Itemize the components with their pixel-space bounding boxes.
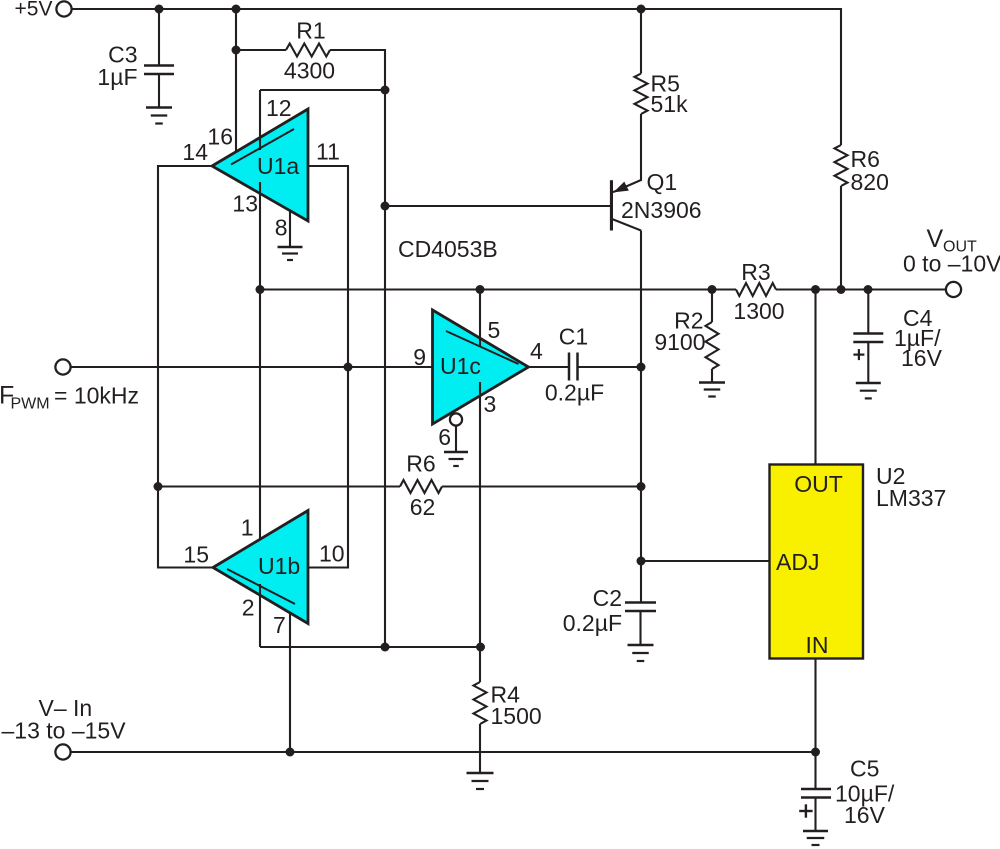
pin label 6 bbox=[438, 424, 451, 450]
wire pin 5 bbox=[479, 290, 481, 348]
svg-text:+5V: +5V bbox=[15, 0, 53, 21]
pin label 10 bbox=[319, 541, 345, 567]
transistor Q1 2N3906 bbox=[610, 169, 702, 231]
svg-text:LM337: LM337 bbox=[876, 485, 946, 511]
ground C3 bbox=[146, 108, 172, 124]
pin label 2 bbox=[242, 595, 255, 621]
wire pin 12 stub bbox=[259, 90, 261, 150]
resistor R4 1500 bbox=[474, 682, 542, 730]
junction top rail at R5 bbox=[637, 5, 646, 14]
wire pin 8 bbox=[289, 211, 291, 247]
resistor R6 62 bbox=[400, 451, 442, 521]
junction VOUT rail R2 bbox=[708, 285, 717, 294]
svg-text:C2: C2 bbox=[593, 585, 622, 611]
wire R2 from rail bbox=[711, 290, 713, 323]
wire pin 3 to R4 bbox=[479, 382, 481, 682]
svg-text:U1a: U1a bbox=[257, 153, 299, 179]
wire C2 to ground bbox=[639, 611, 641, 646]
op-amp U1c switch bbox=[433, 310, 529, 424]
wire C5 from rail bbox=[814, 752, 816, 789]
wire bus x385 bbox=[384, 90, 386, 647]
ground pin 8 bbox=[278, 247, 303, 260]
capacitor C5 bbox=[799, 756, 895, 829]
svg-text:R1: R1 bbox=[296, 18, 325, 44]
pin label 9 bbox=[413, 344, 426, 370]
junction top rail at pin16 bbox=[232, 5, 241, 14]
ground C5 bbox=[803, 831, 828, 845]
wire pin 16 bbox=[235, 9, 237, 151]
wire R1 right bbox=[330, 50, 385, 90]
junction V- rail C5 bbox=[811, 748, 820, 757]
svg-text:11: 11 bbox=[316, 139, 340, 165]
svg-text:R6: R6 bbox=[406, 451, 435, 477]
wire Q1 collector bus x641 bbox=[640, 231, 642, 562]
svg-text:ADJ: ADJ bbox=[776, 549, 819, 575]
wire C2 from node bbox=[640, 561, 642, 603]
svg-text:5: 5 bbox=[488, 317, 501, 343]
pin label 1 bbox=[241, 515, 254, 541]
wire VOUT rail left bbox=[260, 288, 736, 290]
junction VOUT rail C4 bbox=[864, 285, 873, 294]
node +5V terminal bbox=[15, 0, 72, 21]
pin label 12 bbox=[266, 95, 292, 121]
svg-text:2N3906: 2N3906 bbox=[621, 197, 702, 223]
node V-In terminal bbox=[2, 695, 127, 760]
pin label 4 bbox=[530, 338, 543, 364]
capacitor C4 bbox=[853, 305, 942, 371]
capacitor C3 bbox=[97, 42, 174, 91]
junction ADJ node bbox=[637, 557, 646, 566]
svg-text:PWM: PWM bbox=[11, 396, 50, 413]
wire U2 OUT bbox=[814, 290, 816, 465]
label CD4053B bbox=[398, 236, 498, 262]
junction bottom rail x480 bbox=[476, 643, 485, 652]
node FPWM terminal bbox=[0, 359, 139, 412]
wire Q1 base bbox=[385, 205, 611, 207]
wire pin 11 / pin 10 bus x348 bbox=[308, 166, 348, 568]
junction VOUT rail x260 bbox=[256, 285, 265, 294]
svg-text:9100: 9100 bbox=[654, 329, 705, 355]
junction R6-62 x641 bbox=[637, 482, 646, 491]
pin label 8 bbox=[275, 215, 288, 241]
junction VOUT rail R6 bbox=[837, 285, 846, 294]
svg-text:3: 3 bbox=[484, 391, 497, 417]
svg-text:14: 14 bbox=[182, 139, 208, 165]
pin label 7 bbox=[273, 612, 286, 638]
wire C4 to ground bbox=[867, 342, 869, 383]
svg-text:6: 6 bbox=[438, 424, 451, 450]
ground R2 bbox=[699, 383, 725, 397]
svg-text:OUT: OUT bbox=[794, 471, 843, 497]
svg-text:8: 8 bbox=[275, 215, 288, 241]
junction x158 R6 row bbox=[154, 482, 163, 491]
svg-text:1: 1 bbox=[241, 515, 254, 541]
svg-text:0.2µF: 0.2µF bbox=[545, 380, 604, 406]
svg-text:16: 16 bbox=[207, 124, 233, 150]
pin label 15 bbox=[183, 542, 209, 568]
svg-text:10: 10 bbox=[319, 541, 345, 567]
pin 6 bubble bbox=[450, 413, 462, 425]
wire pin 4 to C1 bbox=[529, 366, 570, 368]
resistor R1 4300 bbox=[284, 18, 335, 84]
wire ADJ bbox=[641, 560, 770, 562]
wire R6 to VOUT rail bbox=[840, 186, 842, 290]
op-amp U1b switch bbox=[213, 511, 308, 624]
pin label 13 bbox=[232, 191, 258, 217]
svg-text:13: 13 bbox=[232, 191, 258, 217]
wire pin 7 bbox=[289, 613, 291, 752]
wire R5 from rail bbox=[640, 9, 642, 74]
capacitor C1 bbox=[545, 324, 604, 406]
wire R4 to ground bbox=[479, 724, 481, 773]
svg-text:7: 7 bbox=[273, 612, 286, 638]
junction C1 x641 bbox=[637, 363, 646, 372]
wire R1 left bbox=[236, 49, 286, 51]
svg-text:1µF: 1µF bbox=[97, 64, 137, 90]
wire FPWM rail bbox=[70, 366, 432, 368]
svg-text:R3: R3 bbox=[741, 259, 770, 285]
junction VOUT rail U2 OUT bbox=[811, 285, 820, 294]
svg-text:16V: 16V bbox=[844, 802, 886, 828]
svg-text:2: 2 bbox=[242, 595, 255, 621]
resistor R3 1300 bbox=[733, 259, 784, 324]
svg-text:CD4053B: CD4053B bbox=[398, 236, 498, 262]
resistor R6 820 bbox=[835, 145, 889, 195]
junction FPWM x348 bbox=[344, 363, 353, 372]
wire R5 to Q1 emitter bbox=[613, 114, 641, 192]
wire +5V top rail bbox=[71, 9, 841, 145]
wire bottom node rail bbox=[260, 646, 481, 648]
junction V- rail pin7 bbox=[286, 748, 295, 757]
svg-text:15: 15 bbox=[183, 542, 209, 568]
pin label 5 bbox=[488, 317, 501, 343]
wire C1 to x641 bbox=[578, 366, 642, 368]
wire V- rail bbox=[70, 751, 815, 753]
wire R2 to ground bbox=[711, 369, 713, 383]
junction top rail at C3 bbox=[155, 5, 164, 14]
svg-text:9: 9 bbox=[413, 344, 426, 370]
svg-text:820: 820 bbox=[851, 169, 889, 195]
pin label 11 bbox=[316, 139, 340, 165]
capacitor C2 bbox=[563, 585, 656, 636]
wire C4 from rail bbox=[867, 290, 869, 334]
svg-text:= 10kHz: = 10kHz bbox=[54, 383, 139, 409]
pin label 3 bbox=[484, 391, 497, 417]
wire pin 6 bbox=[455, 425, 457, 452]
svg-text:C5: C5 bbox=[850, 756, 879, 782]
regulator U2 LM337 bbox=[770, 463, 947, 659]
svg-text:62: 62 bbox=[410, 494, 436, 520]
wire C5 to ground bbox=[814, 798, 816, 832]
resistor R2 9100 bbox=[654, 308, 718, 370]
pin label 14 bbox=[182, 139, 208, 165]
junction node pin12/R1 bbox=[381, 86, 390, 95]
wire R6-62 left bbox=[158, 485, 400, 487]
ground R4 bbox=[467, 773, 494, 789]
wire pin 2 stub bbox=[259, 584, 261, 647]
ground pin 6 bbox=[444, 452, 468, 466]
wire R6-62 right bbox=[442, 485, 641, 487]
wire pin 12 row bbox=[260, 89, 385, 91]
op-amp U1a switch bbox=[212, 109, 308, 221]
svg-text:0.2µF: 0.2µF bbox=[563, 610, 622, 636]
wire pin 14 / pin 15 bbox=[158, 166, 213, 568]
svg-text:U1c: U1c bbox=[440, 353, 481, 379]
junction R1 left bbox=[232, 46, 241, 55]
resistor R5 51k bbox=[635, 71, 689, 118]
wire C3 to ground bbox=[158, 74, 160, 108]
svg-text:C1: C1 bbox=[559, 324, 588, 350]
junction VOUT rail pin5 bbox=[476, 285, 485, 294]
wire pin 13 bus x260 bbox=[259, 182, 261, 551]
ground C2 bbox=[628, 645, 654, 661]
pin label 16 bbox=[207, 124, 233, 150]
svg-text:U1b: U1b bbox=[258, 553, 300, 579]
svg-text:IN: IN bbox=[806, 632, 829, 658]
wire C3 from rail bbox=[158, 9, 160, 66]
svg-text:4: 4 bbox=[530, 338, 543, 364]
svg-text:1500: 1500 bbox=[491, 703, 542, 729]
wire U2 IN bbox=[814, 659, 816, 753]
svg-text:0 to –10V: 0 to –10V bbox=[903, 251, 1000, 277]
svg-text:51k: 51k bbox=[651, 91, 689, 117]
svg-text:1300: 1300 bbox=[733, 298, 784, 324]
svg-text:V: V bbox=[927, 225, 944, 253]
node VOUT terminal bbox=[903, 225, 1000, 297]
junction Q1 base at x385 bbox=[381, 202, 390, 211]
svg-text:16V: 16V bbox=[901, 345, 943, 371]
svg-text:–13 to –15V: –13 to –15V bbox=[2, 718, 127, 744]
svg-text:4300: 4300 bbox=[284, 58, 335, 84]
ground C4 bbox=[856, 383, 881, 398]
wire VOUT rail right bbox=[776, 288, 946, 290]
svg-text:12: 12 bbox=[266, 95, 292, 121]
junction bottom rail x385 bbox=[381, 643, 390, 652]
svg-text:Q1: Q1 bbox=[647, 169, 678, 195]
